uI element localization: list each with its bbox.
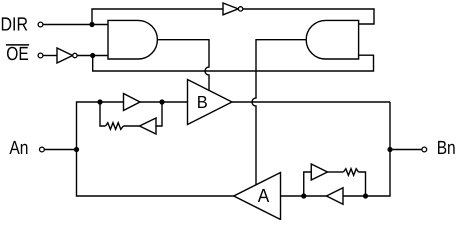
wire An junction up to bus-hold row and to buffer B input <box>77 102 188 150</box>
svg-text:DIR: DIR <box>1 15 29 36</box>
node Bn junction <box>387 147 392 152</box>
AND gate G1 (B-direction enable) <box>108 20 157 59</box>
inverter U2 (OE input) <box>57 48 77 63</box>
node OE junction <box>90 53 95 58</box>
wire buffer B output to Bn node <box>232 101 390 103</box>
svg-text:An: An <box>9 138 28 159</box>
output terminal Bn <box>422 138 456 159</box>
node bus-hold B left junction <box>97 99 102 104</box>
bus-hold B forward buffer <box>124 94 141 111</box>
node bus-hold A right junction <box>363 193 368 198</box>
wire An terminal to An junction <box>44 149 76 151</box>
bus-hold A forward inverting stage (points left) <box>327 188 344 204</box>
node bus-hold B right junction <box>159 99 164 104</box>
svg-text:OE: OE <box>6 44 29 65</box>
wire DIR junction up to top rail and to inverter U1 input <box>92 9 223 25</box>
input terminal OE (active low) <box>6 44 43 65</box>
input terminal DIR <box>1 15 43 36</box>
wire DIR terminal to AND gate G1 top input <box>43 24 108 26</box>
node DIR junction <box>89 22 94 27</box>
wire buffer A output to An junction <box>77 150 234 197</box>
wire inverter U2 output to AND gate G1 bottom input <box>77 55 108 57</box>
node bus-hold A left junction <box>301 193 306 198</box>
input terminal An <box>9 138 44 159</box>
wire Bn node down and across to buffer A input <box>281 102 391 196</box>
svg-text:Bn: Bn <box>437 138 456 159</box>
buffer A (tri-state, B-to-A, points left) <box>234 173 281 220</box>
wire Bn junction to Bn terminal <box>390 149 422 151</box>
wire inverter U1 output to AND gate G2 top input <box>243 9 374 24</box>
node An junction <box>74 147 79 152</box>
AND gate G2 (A-direction enable, mirrored) <box>306 20 358 59</box>
buffer B (tri-state, A-to-B) <box>188 80 233 125</box>
bus-hold B feedback: wire, resistor R1, inverter, wire <box>100 102 162 134</box>
svg-text:B: B <box>197 92 208 112</box>
inverter U1 (DIR to G2) <box>223 3 243 15</box>
bus-hold A feedback: wire, buffer, resistor R2, wire <box>304 164 366 196</box>
svg-text:A: A <box>258 186 270 207</box>
wire G2 output to buffer A enable (hops over B output line) <box>252 40 306 185</box>
wire G1 output to buffer B enable (hops over OE line) <box>157 40 209 91</box>
wire OE terminal to inverter U2 <box>43 55 57 57</box>
wire OE junction down and across to AND gate G2 bottom input <box>93 55 374 71</box>
